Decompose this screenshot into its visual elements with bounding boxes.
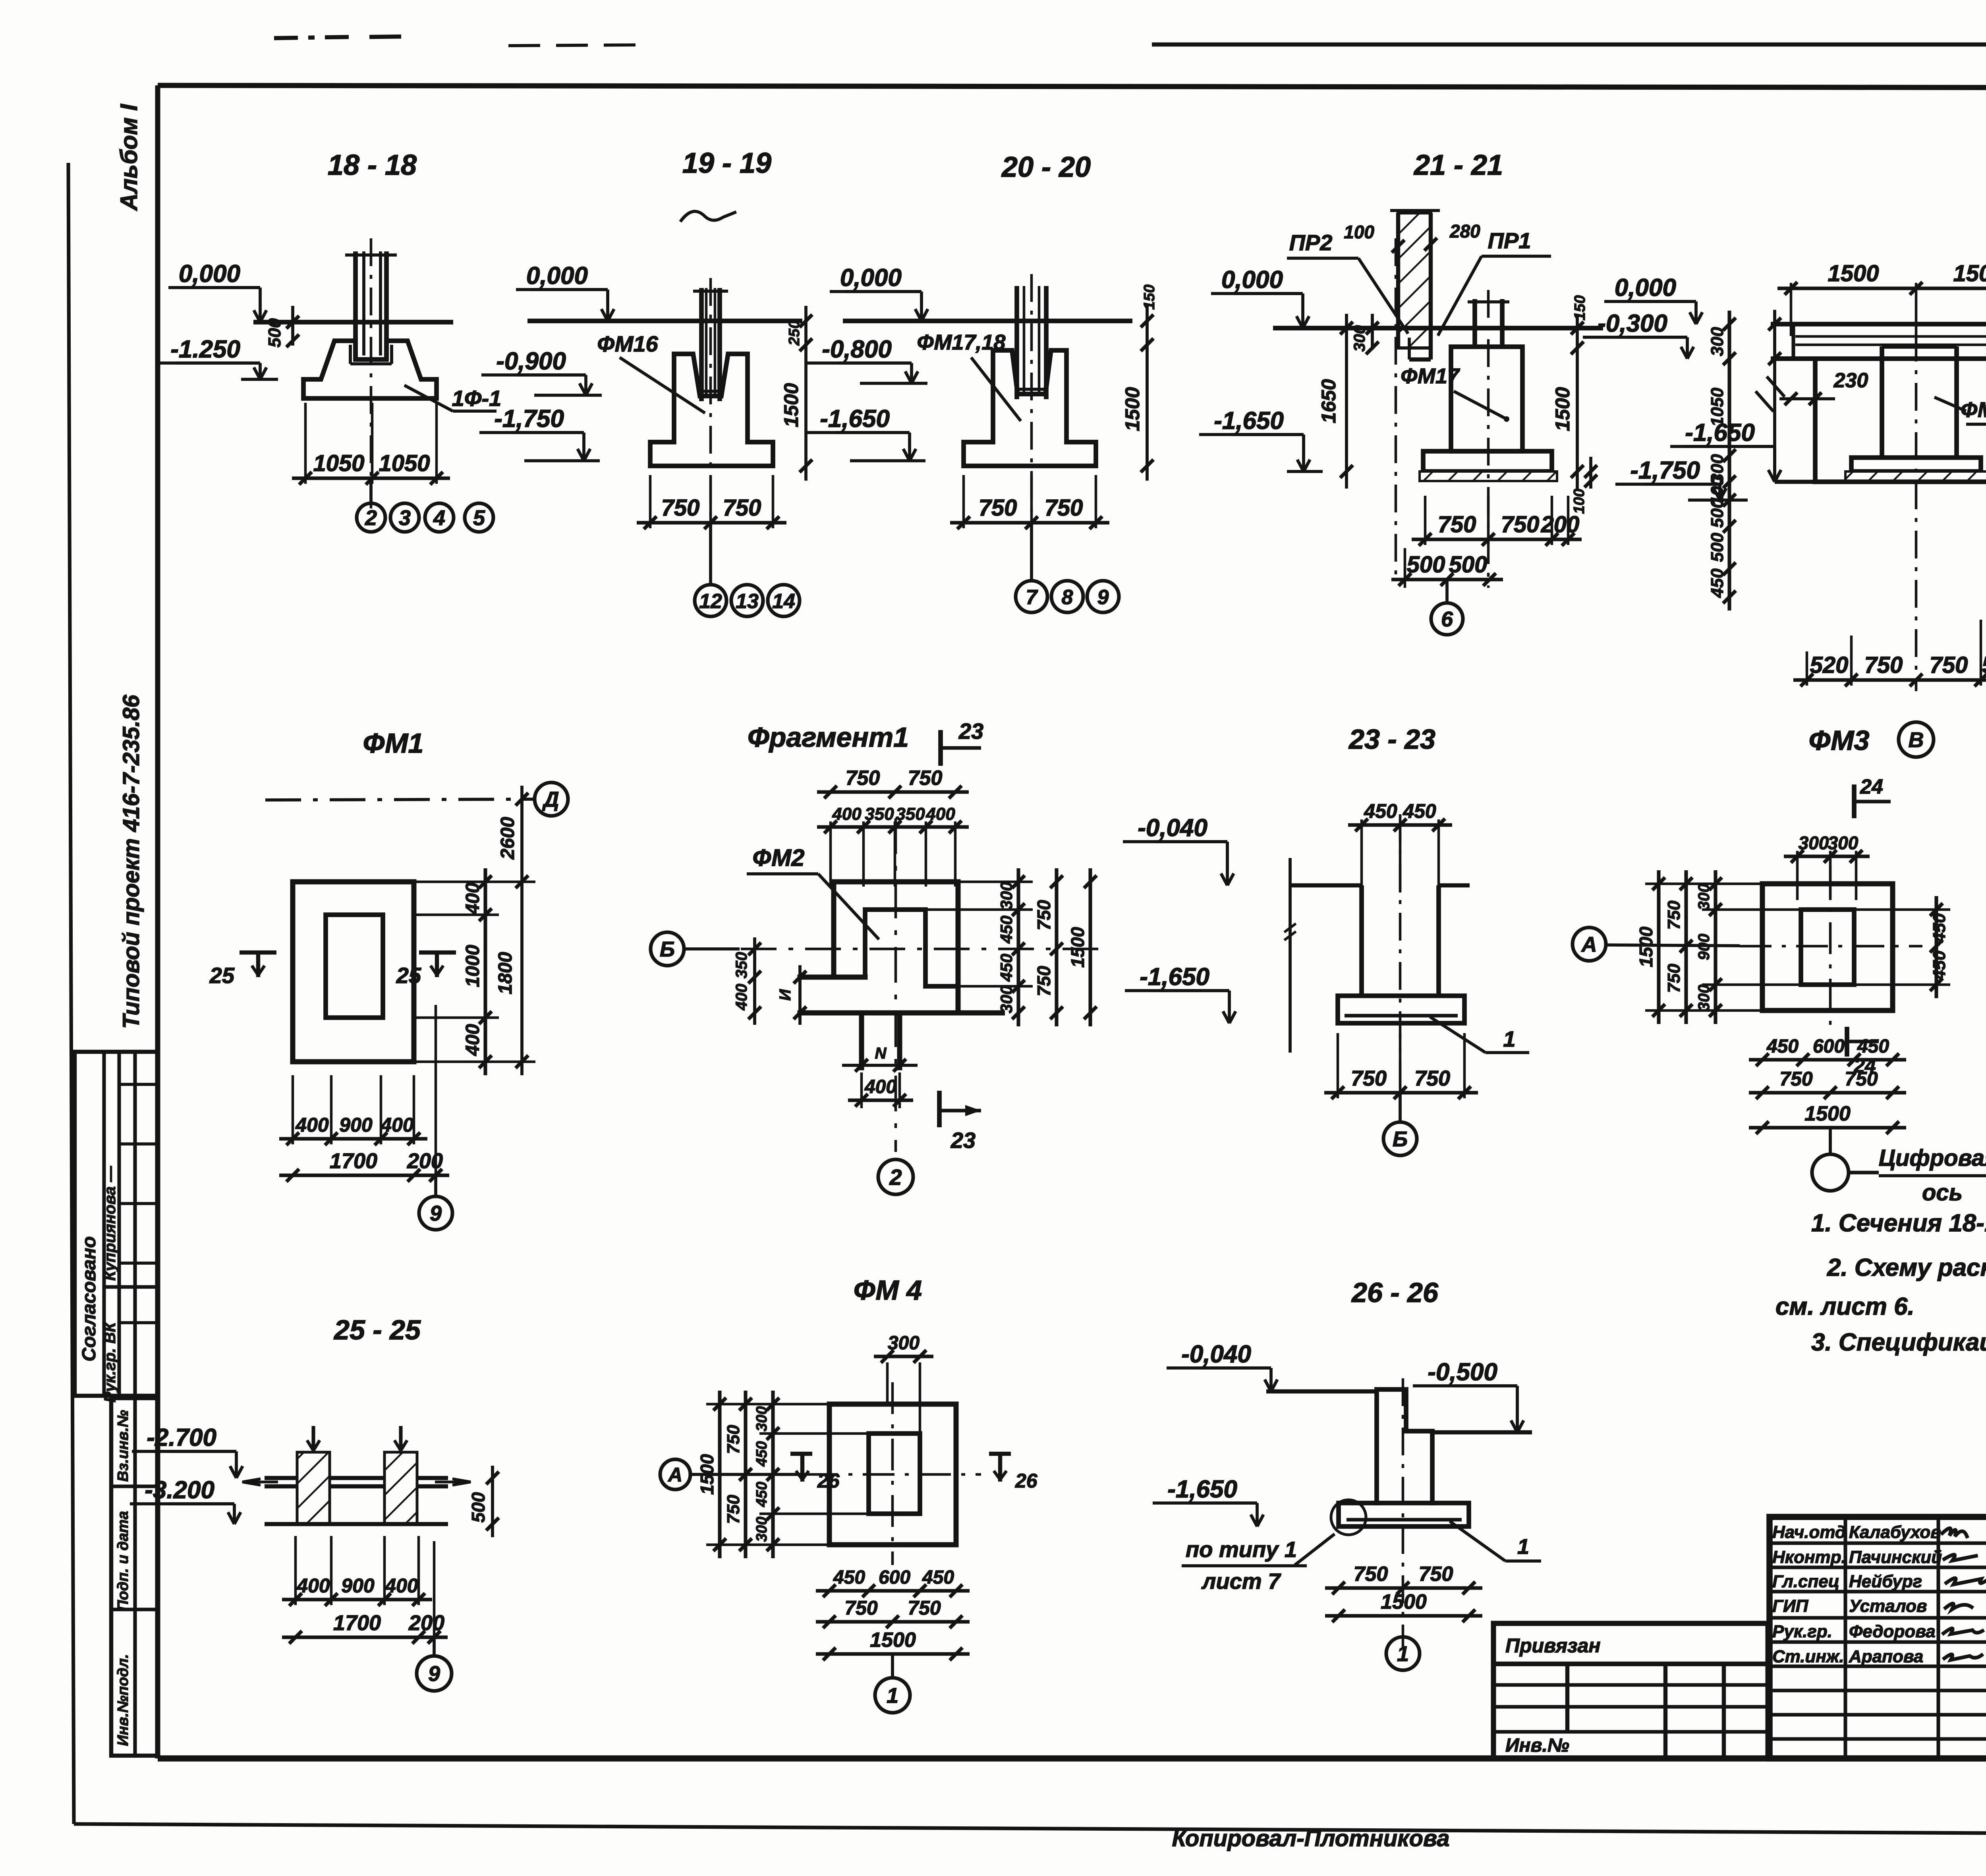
ext line left 22-22 xyxy=(1773,310,1776,482)
left dim chain 22-22 xyxy=(1727,311,1731,611)
svg-text:750: 750 xyxy=(1845,1068,1878,1090)
svg-text:750: 750 xyxy=(846,767,880,790)
arrow left slab xyxy=(242,1479,278,1485)
dims 500 500 21-21 xyxy=(1391,578,1503,581)
hatched pier 1 25-25 xyxy=(297,1452,330,1524)
svg-text:Рук.гр.: Рук.гр. xyxy=(1772,1622,1832,1641)
fragment axes dashdot xyxy=(741,948,1104,951)
svg-text:лист 7: лист 7 xyxy=(1201,1569,1282,1594)
svg-text:450: 450 xyxy=(997,954,1016,982)
svg-text:ФМ17,18: ФМ17,18 xyxy=(917,330,1006,354)
ФМ1 bottom dims 1700 200 xyxy=(279,1173,449,1177)
svg-text:-1,650: -1,650 xyxy=(1140,963,1209,991)
svg-text:Гл.спец: Гл.спец xyxy=(1772,1572,1839,1591)
svg-text:450: 450 xyxy=(1857,1036,1889,1057)
dim 450 450 top 23-23 xyxy=(1348,823,1452,827)
column 20-20 xyxy=(1014,286,1019,399)
svg-text:Куприянова —: Куприянова — xyxy=(101,1166,119,1281)
svg-text:1: 1 xyxy=(1517,1535,1529,1559)
svg-text:750: 750 xyxy=(1351,1066,1387,1090)
dims 1700 200 25-25 xyxy=(282,1635,448,1639)
svg-text:750: 750 xyxy=(724,1495,743,1524)
svg-text:400: 400 xyxy=(462,883,483,915)
svg-text:А: А xyxy=(1581,933,1597,956)
svg-text:Цифровая: Цифровая xyxy=(1879,1145,1986,1171)
centerline 21-21 xyxy=(1487,290,1490,588)
ground line 19-19 xyxy=(527,319,802,323)
svg-text:450: 450 xyxy=(1930,913,1949,943)
svg-text:9: 9 xyxy=(428,1662,440,1686)
svg-text:250: 250 xyxy=(786,320,803,346)
column 18-18 xyxy=(353,251,358,359)
svg-text:230: 230 xyxy=(1833,369,1868,392)
svg-text:Подп. и дата: Подп. и дата xyxy=(115,1511,131,1611)
svg-text:9: 9 xyxy=(1097,586,1109,609)
leader 1Ф-1 xyxy=(404,385,453,411)
svg-text:450: 450 xyxy=(753,1441,770,1466)
centerline 18-18 xyxy=(370,238,373,508)
svg-text:400: 400 xyxy=(864,1076,896,1097)
drawing frame top line lower xyxy=(158,85,1986,88)
svg-text:12: 12 xyxy=(699,590,722,613)
svg-text:300: 300 xyxy=(753,1517,770,1542)
svg-text:1500: 1500 xyxy=(1953,261,1986,286)
ground line right 26-26 xyxy=(1432,1430,1532,1434)
ФМ4 outer rect xyxy=(829,1404,956,1545)
svg-text:-0,800: -0,800 xyxy=(822,336,892,363)
svg-text:1050: 1050 xyxy=(379,450,430,476)
dim 1500 and 150 right 20-20 xyxy=(1146,306,1149,481)
sheet outer edge left xyxy=(68,163,74,1824)
svg-text:23: 23 xyxy=(958,719,983,744)
column 23-23 xyxy=(1359,885,1364,996)
axis circles 7 8 9 xyxy=(1030,523,1033,581)
svg-text:Привязан: Привязан xyxy=(1505,1634,1601,1657)
svg-text:Типовой проект 416-7-235.86: Типовой проект 416-7-235.86 xyxy=(118,695,144,1029)
sheet outer edge bottom xyxy=(74,1824,1986,1836)
svg-text:450: 450 xyxy=(1766,1036,1799,1057)
ФМ1 outer rect xyxy=(293,882,414,1062)
fragment left cut ticks xyxy=(798,965,802,1025)
svg-text:ФМ 4: ФМ 4 xyxy=(854,1275,922,1306)
wall panel hatched 21-21 xyxy=(1398,213,1431,348)
svg-text:500: 500 xyxy=(265,318,284,348)
svg-text:25: 25 xyxy=(396,963,421,988)
axis circle Б fragment xyxy=(651,932,684,966)
ФМ3 inner square xyxy=(1801,910,1854,985)
svg-text:450: 450 xyxy=(1364,800,1397,822)
left annex table Привязан xyxy=(1493,1623,1768,1758)
excavation steps 22-22 xyxy=(1815,482,1986,597)
svg-text:ось: ось xyxy=(1922,1180,1963,1206)
svg-text:300: 300 xyxy=(753,1406,770,1431)
column ФМ17 22-22 xyxy=(1880,346,1884,458)
foundation slab 21-21 xyxy=(1423,451,1552,471)
centerline 26-26 xyxy=(1402,1378,1404,1648)
footing ФМ16 outline 19-19 xyxy=(650,354,773,466)
svg-text:300: 300 xyxy=(1828,833,1858,853)
axis circle В xyxy=(1899,722,1934,757)
svg-text:Нконтр.: Нконтр. xyxy=(1772,1548,1846,1567)
dim 1500 and 250 right 19-19 xyxy=(804,306,808,481)
svg-text:25: 25 xyxy=(209,963,235,988)
fragment dim 400 bottom xyxy=(848,1098,913,1102)
section mark 24 bottom xyxy=(1845,1027,1849,1057)
svg-text:450: 450 xyxy=(1403,800,1436,822)
axis circle Б 23-23 xyxy=(1399,1093,1402,1122)
svg-text:500: 500 xyxy=(1708,533,1727,562)
svg-text:450: 450 xyxy=(753,1482,770,1507)
dims 400 900 400 25-25 xyxy=(282,1598,432,1601)
svg-text:750: 750 xyxy=(1664,964,1684,993)
drawing frame left xyxy=(155,85,160,1758)
svg-text:300: 300 xyxy=(1708,327,1727,356)
left wall footing line 22-22 xyxy=(1775,480,1815,484)
svg-text:по типу 1: по типу 1 xyxy=(1186,1537,1297,1562)
svg-text:Федорова: Федорова xyxy=(1849,1622,1936,1641)
svg-text:4: 4 xyxy=(433,506,445,530)
svg-text:200: 200 xyxy=(408,1611,444,1635)
svg-text:0,000: 0,000 xyxy=(1221,266,1283,294)
svg-text:750: 750 xyxy=(1864,652,1903,678)
svg-text:1500: 1500 xyxy=(1828,261,1879,286)
svg-text:Пачинский: Пачинский xyxy=(1849,1548,1942,1567)
svg-text:750: 750 xyxy=(908,1597,941,1619)
fragment right dim chain 1500 xyxy=(1088,868,1092,1026)
svg-text:2. Схему раскладки сеток подош: 2. Схему раскладки сеток подошвы фундаме… xyxy=(1827,1254,1986,1281)
svg-text:Нейбург: Нейбург xyxy=(1849,1572,1922,1591)
svg-text:1500: 1500 xyxy=(1804,1102,1851,1125)
svg-text:И: И xyxy=(777,989,794,1001)
svg-text:750: 750 xyxy=(1045,495,1083,521)
dim 1500 26-26 xyxy=(1325,1614,1482,1617)
svg-text:2: 2 xyxy=(889,1165,902,1190)
svg-text:-0,040: -0,040 xyxy=(1181,1341,1251,1368)
slab lines 25-25 xyxy=(265,1476,448,1480)
svg-text:Копировал-Плотникова: Копировал-Плотникова xyxy=(1172,1826,1449,1851)
axis circles 2 3 4 5 xyxy=(369,478,373,504)
svg-text:450: 450 xyxy=(1930,951,1949,980)
ФМ3 bottom dims 1500 xyxy=(1749,1126,1906,1129)
svg-text:750: 750 xyxy=(724,1425,743,1454)
section mark 23 top xyxy=(938,730,943,766)
axis circle 9 25-25 xyxy=(433,1637,436,1656)
axis circle Д ФМ1 xyxy=(535,782,568,816)
hatched pier 2 25-25 xyxy=(384,1452,417,1524)
signature table lower empty rows xyxy=(1770,1689,1986,1692)
axis circle 2 fragment xyxy=(878,1159,913,1194)
svg-text:-1.250: -1.250 xyxy=(170,336,240,363)
svg-text:ФМ2: ФМ2 xyxy=(753,844,805,871)
centerline 23-23 xyxy=(1399,814,1402,1104)
foundation ФМ17 block 21-21 xyxy=(1451,347,1522,451)
svg-text:-0,040: -0,040 xyxy=(1138,814,1207,842)
dim 300 vertical 21-21 xyxy=(1371,314,1374,350)
svg-text:13: 13 xyxy=(736,590,759,613)
pier arrows 25-25 xyxy=(311,1426,315,1450)
svg-text:500: 500 xyxy=(1708,498,1727,528)
svg-text:2600: 2600 xyxy=(497,817,518,860)
ground line 21-21 xyxy=(1273,326,1603,330)
centerline 19-19 xyxy=(709,278,712,576)
svg-text:Ст.инж.: Ст.инж. xyxy=(1772,1647,1844,1666)
svg-text:2: 2 xyxy=(365,506,377,530)
dim 750 750 26-26 xyxy=(1325,1586,1482,1590)
svg-text:1500: 1500 xyxy=(1551,387,1574,431)
svg-text:6: 6 xyxy=(1441,607,1453,631)
svg-text:-3.200: -3.200 xyxy=(145,1476,214,1504)
svg-text:520: 520 xyxy=(1982,652,1986,678)
section mark 26 left xyxy=(790,1452,812,1456)
svg-text:Альбом I: Альбом I xyxy=(116,104,142,211)
scan squiggle mark xyxy=(681,211,735,220)
column stub 21-21 xyxy=(1472,299,1477,347)
svg-text:1500: 1500 xyxy=(1381,1590,1427,1613)
svg-text:750: 750 xyxy=(1354,1563,1388,1586)
svg-text:-1,650: -1,650 xyxy=(1167,1476,1237,1503)
ФМ4 bottom dims 1500 xyxy=(816,1652,970,1656)
svg-text:450: 450 xyxy=(922,1567,954,1588)
axis circles 12 13 14 xyxy=(709,523,712,585)
svg-text:300: 300 xyxy=(997,882,1016,910)
drawing frame top line upper xyxy=(1152,43,1986,46)
svg-text:Согласовано: Согласовано xyxy=(79,1236,100,1362)
dim 300 top ФМ4 xyxy=(874,1354,933,1358)
svg-text:26: 26 xyxy=(1015,1470,1038,1492)
svg-text:21 - 21: 21 - 21 xyxy=(1413,149,1503,181)
hatched base 22-22 xyxy=(1845,471,1986,482)
svg-text:600: 600 xyxy=(879,1567,910,1588)
drawing frame bottom xyxy=(158,1755,1986,1762)
section mark 23 bottom xyxy=(937,1091,942,1127)
wall top break xyxy=(1390,209,1440,212)
svg-text:7: 7 xyxy=(1026,586,1038,609)
bottom line 25-25 xyxy=(265,1522,448,1526)
svg-text:Арапова: Арапова xyxy=(1849,1647,1923,1666)
dim 500 right 25-25 xyxy=(491,1466,494,1537)
axis Д dashdot line xyxy=(265,799,534,800)
signature table xyxy=(1770,1541,1986,1545)
fragment top dims 750 750 xyxy=(817,790,969,794)
svg-text:26 - 26: 26 - 26 xyxy=(1351,1277,1439,1308)
svg-text:см. лист 6.: см. лист 6. xyxy=(1775,1293,1915,1320)
svg-text:ГИП: ГИП xyxy=(1772,1596,1809,1616)
foundation base hatched strip 21-21 xyxy=(1420,471,1557,481)
dim 300 300 top ФМ3 xyxy=(1784,854,1870,858)
footing ФМ17-18 outline 20-20 xyxy=(964,350,1096,466)
dims 750 750 200 21-21 xyxy=(1412,537,1582,541)
svg-text:350: 350 xyxy=(896,804,925,824)
foundation profile 26-26 xyxy=(1377,1389,1432,1503)
svg-text:450: 450 xyxy=(833,1567,865,1588)
ground line 23-23 xyxy=(1290,883,1362,887)
svg-text:300: 300 xyxy=(1351,325,1368,352)
svg-text:600: 600 xyxy=(1813,1036,1845,1057)
svg-text:0,000: 0,000 xyxy=(526,262,588,290)
svg-text:300: 300 xyxy=(1695,884,1713,910)
ФМ4 left dim chains xyxy=(718,1391,721,1558)
svg-text:300: 300 xyxy=(997,985,1016,1013)
fragment right dim chain 300 450 450 300 xyxy=(1016,868,1020,1026)
axis circle А ФМ4 xyxy=(660,1459,690,1490)
svg-text:23: 23 xyxy=(950,1128,976,1153)
svg-text:500: 500 xyxy=(468,1492,489,1522)
column 19-19 xyxy=(699,288,704,401)
svg-text:Фрагмент1: Фрагмент1 xyxy=(748,722,909,753)
svg-text:500: 500 xyxy=(1407,552,1445,578)
ground line left 26-26 xyxy=(1266,1389,1378,1393)
svg-text:900: 900 xyxy=(1695,934,1713,960)
svg-text:23 - 23: 23 - 23 xyxy=(1348,724,1435,755)
svg-text:100: 100 xyxy=(1571,489,1588,514)
svg-text:1. Сечения 18-18... 22-22 зама: 1. Сечения 18-18... 22-22 замаркированы … xyxy=(1811,1209,1986,1237)
svg-text:-0,500: -0,500 xyxy=(1428,1358,1497,1386)
ФМ3 outer square xyxy=(1762,884,1893,1010)
dim 1650 vertical 21-21 xyxy=(1345,314,1348,489)
svg-text:520: 520 xyxy=(1810,652,1849,678)
footing slab 26-26 xyxy=(1339,1503,1469,1526)
svg-text:-0,300: -0,300 xyxy=(1598,310,1667,337)
svg-text:300: 300 xyxy=(1799,833,1829,853)
svg-text:400: 400 xyxy=(296,1575,330,1597)
digit axis circle ФМ3 xyxy=(1829,1128,1832,1154)
break mark top left 22-22 xyxy=(1767,377,1785,397)
floor slab band 22-22 xyxy=(1771,356,1986,361)
ground line 18-18 xyxy=(253,320,453,325)
dim 1500 1500 top 22-22 xyxy=(1777,286,1986,290)
dim 750 750 19-19 xyxy=(637,521,786,524)
svg-text:ФМ16: ФМ16 xyxy=(597,331,658,356)
svg-text:0,000: 0,000 xyxy=(1615,274,1676,301)
svg-text:0,000: 0,000 xyxy=(840,264,902,292)
svg-text:Инв.№подл.: Инв.№подл. xyxy=(115,1654,131,1746)
svg-text:0,000: 0,000 xyxy=(179,260,240,288)
ФМ1 dim 2600 xyxy=(520,786,524,1075)
ФМ4 bottom dims 750 750 xyxy=(816,1620,970,1623)
svg-text:300: 300 xyxy=(1695,985,1713,1011)
section mark 24 top xyxy=(1852,784,1857,818)
svg-text:24: 24 xyxy=(1860,775,1883,798)
svg-text:750: 750 xyxy=(979,495,1017,521)
axis circle А ФМ3 xyxy=(1573,927,1606,961)
fragment ФМ2 outline xyxy=(800,882,958,1068)
footing slab 23-23 xyxy=(1338,996,1464,1023)
svg-text:-1,650: -1,650 xyxy=(820,405,890,433)
left wall 22-22 xyxy=(1813,359,1818,482)
svg-text:1650: 1650 xyxy=(1318,379,1340,423)
svg-text:-1,750: -1,750 xyxy=(494,405,564,433)
svg-text:400: 400 xyxy=(380,1114,414,1136)
svg-text:750: 750 xyxy=(1779,1068,1813,1090)
svg-text:750: 750 xyxy=(661,495,700,521)
dim 750 750 20-20 xyxy=(950,521,1109,524)
floor line top 22-22 xyxy=(1771,322,1986,327)
fragment left dims 400 350 xyxy=(753,937,756,1025)
svg-text:26: 26 xyxy=(817,1470,840,1492)
svg-text:Нач.отд: Нач.отд xyxy=(1772,1522,1846,1542)
svg-text:20 - 20: 20 - 20 xyxy=(1001,151,1091,183)
svg-text:3. Спецификацию на ФМ1... ФМ4: 3. Спецификацию на ФМ1... ФМ4 - см. лист… xyxy=(1811,1329,1986,1356)
svg-text:Д: Д xyxy=(542,788,559,811)
fragment right dim chain 750 750 xyxy=(1055,868,1058,1026)
svg-text:750: 750 xyxy=(844,1597,878,1619)
ФМ3 bottom dims 450 600 450 xyxy=(1749,1058,1906,1061)
svg-text:1050: 1050 xyxy=(313,450,364,476)
svg-text:ПР2: ПР2 xyxy=(1289,230,1333,255)
svg-text:-1,650: -1,650 xyxy=(1214,407,1284,435)
svg-text:450: 450 xyxy=(997,916,1016,944)
ФМ4 inner rect xyxy=(869,1434,920,1514)
ФМ4 bottom dims 450 600 450 xyxy=(816,1589,970,1592)
label 1 leader 23-23 xyxy=(1430,1017,1486,1053)
svg-text:14: 14 xyxy=(772,590,795,613)
svg-text:1500: 1500 xyxy=(870,1629,916,1652)
svg-text:1: 1 xyxy=(887,1684,898,1708)
svg-text:350: 350 xyxy=(733,952,750,979)
scan artifact dash top xyxy=(274,37,350,38)
dim 100 right low 21-21 xyxy=(1589,457,1592,489)
fragment inner steps xyxy=(865,910,958,986)
sidebar table inv block xyxy=(111,1398,158,1756)
svg-text:900: 900 xyxy=(341,1575,375,1597)
svg-text:500: 500 xyxy=(1449,552,1488,578)
svg-text:750: 750 xyxy=(1930,652,1968,678)
svg-text:18 - 18: 18 - 18 xyxy=(328,149,417,181)
svg-text:ФМ1: ФМ1 xyxy=(363,728,424,759)
left ext line with break 23-23 xyxy=(1289,858,1292,1053)
svg-text:1500: 1500 xyxy=(1636,926,1656,967)
svg-text:Вз.инв.№: Вз.инв.№ xyxy=(115,1410,131,1482)
svg-text:400: 400 xyxy=(384,1575,418,1597)
svg-text:750: 750 xyxy=(1664,900,1684,930)
footing 1Ф-1 outline xyxy=(303,341,437,398)
svg-text:100: 100 xyxy=(1344,222,1374,242)
section mark 25 left xyxy=(240,951,276,954)
dim 1050 1050 18-18 xyxy=(292,476,450,480)
svg-text:400: 400 xyxy=(733,984,750,1011)
sidebar table Согласовано block xyxy=(75,1052,158,1396)
svg-text:1050: 1050 xyxy=(1708,388,1727,427)
svg-text:750: 750 xyxy=(1034,966,1054,996)
dim 1500 150 right 21-21 xyxy=(1576,314,1579,489)
pedestal 22-22 xyxy=(1851,458,1981,471)
svg-text:1500: 1500 xyxy=(780,383,802,427)
ФМ3 right dim 450 450 xyxy=(1934,896,1938,998)
svg-text:25 - 25: 25 - 25 xyxy=(333,1314,421,1345)
ФМ3 axes xyxy=(1740,945,1922,948)
fragment top dims 400 350 350 400 xyxy=(817,825,969,829)
ФМ4 axes xyxy=(806,1473,981,1476)
svg-text:Инв.№: Инв.№ xyxy=(1505,1735,1569,1756)
svg-text:1: 1 xyxy=(1397,1642,1409,1666)
svg-text:А: А xyxy=(667,1464,682,1486)
svg-text:750: 750 xyxy=(1414,1066,1450,1090)
title block outer xyxy=(1770,1517,1986,1758)
svg-text:ФМ3: ФМ3 xyxy=(1809,725,1870,756)
svg-text:Рук.гр. ВК: Рук.гр. ВК xyxy=(101,1322,119,1403)
svg-text:5: 5 xyxy=(473,506,485,530)
svg-text:ФМ17: ФМ17 xyxy=(1401,364,1461,388)
svg-text:200: 200 xyxy=(407,1149,443,1173)
axis circle 6 xyxy=(1445,580,1449,603)
svg-text:Усталов: Усталов xyxy=(1849,1596,1927,1616)
svg-text:1700: 1700 xyxy=(333,1611,381,1635)
svg-text:-2.700: -2.700 xyxy=(147,1424,216,1451)
svg-text:400: 400 xyxy=(832,804,862,824)
svg-text:350: 350 xyxy=(865,804,894,824)
label 1 leader 26-26 xyxy=(1450,1521,1505,1561)
svg-text:3: 3 xyxy=(399,506,411,530)
